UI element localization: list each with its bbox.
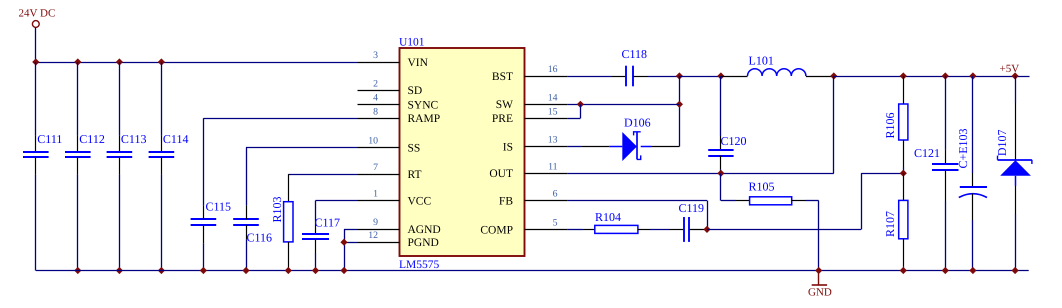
svg-text:SS: SS (408, 142, 421, 154)
wire +5V rail (834, 76, 1030, 78)
svg-text:C112: C112 (79, 132, 105, 146)
wire COMP to R104 (567, 229, 595, 231)
diode D106 schottky (622, 115, 650, 161)
capacitor C111 (23, 62, 62, 271)
svg-text:C+E103: C+E103 (956, 128, 970, 168)
svg-text:PRE: PRE (492, 113, 513, 125)
junction feedback divider node (900, 170, 907, 177)
svg-text:GND: GND (808, 286, 832, 298)
svg-text:BST: BST (492, 71, 513, 83)
capacitor C116 (233, 205, 272, 270)
pin 14 SW of U101 (496, 92, 568, 111)
capacitor C115 (191, 200, 231, 271)
svg-text:24V DC: 24V DC (19, 8, 56, 20)
junction bottom bus at CE103 (969, 267, 976, 274)
wire BST to C118 (567, 76, 626, 78)
junction FB COMP (703, 226, 710, 233)
pin 12 PGND of U101 (358, 230, 439, 249)
wire R104 to C119 (638, 229, 684, 231)
wire FB to C119 node (567, 201, 707, 230)
svg-text:6: 6 (553, 189, 558, 200)
svg-text:2: 2 (373, 78, 378, 89)
svg-text:8: 8 (373, 106, 378, 117)
svg-text:RT: RT (408, 169, 422, 181)
junction C120 top (717, 72, 724, 79)
junction input bus at C111 (32, 58, 39, 65)
wire SS to C116 (246, 148, 358, 206)
wire RT to R103 (288, 174, 357, 176)
wire VCC to C117 (316, 201, 358, 221)
pin 1 VCC of U101 (358, 189, 432, 208)
junction bottom bus at C114 (158, 267, 165, 274)
junction SW node top (676, 72, 683, 79)
resistor R105 (721, 173, 819, 270)
svg-text:3: 3 (373, 50, 378, 61)
wire C118 to SW node (633, 76, 680, 78)
pin 11 OUT of U101 (489, 161, 567, 180)
power port 24V DC terminal (19, 8, 56, 28)
wire SW node vertical (679, 76, 681, 147)
junction L101 output (830, 72, 837, 79)
svg-text:R103: R103 (270, 196, 284, 222)
junction bottom bus at C113 (116, 267, 123, 274)
wire RAMP to C115 (203, 118, 357, 205)
svg-text:5: 5 (553, 217, 558, 228)
junction SW node mid (676, 101, 683, 108)
capacitor C119 (679, 201, 705, 242)
resistor R103 (270, 174, 293, 270)
svg-text:14: 14 (548, 92, 558, 103)
pin 6 FB of U101 (499, 189, 567, 208)
junction bottom bus at GND (815, 267, 822, 274)
capacitor C118 (622, 47, 648, 86)
junction +5V at R106 (900, 72, 907, 79)
capacitor C120 (708, 76, 746, 173)
svg-text:R107: R107 (883, 211, 897, 237)
resistor R106 (883, 76, 908, 173)
svg-text:AGND: AGND (408, 224, 441, 236)
capacitor C114 (149, 62, 189, 271)
svg-text:C113: C113 (121, 132, 147, 146)
svg-text:COMP: COMP (480, 224, 513, 236)
svg-text:LM5575: LM5575 (399, 259, 440, 271)
junction +5V at C121 (942, 72, 949, 79)
wire SW node to L101 (679, 76, 721, 78)
junction +5V at D107 (1012, 72, 1019, 79)
svg-text:IS: IS (503, 141, 513, 153)
capacitor C117 (302, 215, 340, 270)
diode D107 schottky (995, 76, 1032, 271)
svg-text:C117: C117 (315, 215, 341, 229)
svg-text:L101: L101 (749, 53, 774, 67)
wire AGND joins PGND (344, 229, 358, 270)
junction OUT at C120 (717, 170, 724, 177)
junction bottom bus at C116 (242, 267, 249, 274)
svg-text:16: 16 (548, 64, 558, 75)
svg-text:C121: C121 (914, 146, 940, 160)
svg-text:VCC: VCC (408, 195, 432, 207)
pin 10 SS of U101 (358, 136, 421, 155)
junction bottom bus at C115 (200, 267, 207, 274)
wire OUT line (567, 76, 834, 174)
wire D106 cathode to SW node (641, 146, 680, 148)
svg-text:7: 7 (373, 162, 378, 173)
svg-text:C116: C116 (247, 231, 273, 245)
junction bottom bus at R103 (285, 267, 292, 274)
svg-text:D106: D106 (624, 115, 651, 129)
wire IS to D106 (567, 146, 622, 148)
svg-text:PGND: PGND (408, 237, 439, 249)
junction bottom bus at C112 (74, 267, 81, 274)
capacitor C121 (914, 76, 959, 271)
svg-text:15: 15 (548, 106, 558, 117)
wire SW line (567, 104, 679, 106)
pin 15 PRE of U101 (492, 106, 567, 125)
svg-text:C119: C119 (679, 201, 705, 215)
svg-text:SYNC: SYNC (408, 99, 439, 111)
wire bottom ground bus (36, 270, 1029, 272)
junction bottom bus at C121 (942, 267, 949, 274)
svg-text:U101: U101 (399, 37, 425, 49)
svg-text:VIN: VIN (408, 57, 429, 69)
pin 2 SD of U101 (358, 78, 423, 97)
junction AGND PGND (340, 239, 347, 246)
capacitor C113 (107, 62, 147, 271)
svg-text:13: 13 (548, 135, 558, 146)
svg-text:C115: C115 (206, 200, 232, 214)
op-amp U1 regulator U101 LM5575 body (399, 37, 525, 271)
junction SW PRE (577, 101, 584, 108)
pin 5 COMP of U101 (480, 217, 567, 236)
svg-text:9: 9 (373, 217, 378, 228)
svg-text:10: 10 (368, 136, 378, 147)
svg-text:12: 12 (368, 230, 378, 241)
svg-text:OUT: OUT (489, 168, 513, 180)
junction input bus at C114 (158, 58, 165, 65)
pin 7 RT of U101 (358, 162, 422, 181)
wire COMP junction to divider node (707, 173, 903, 229)
pin 13 IS of U101 (503, 135, 568, 154)
resistor R104 (595, 210, 638, 233)
svg-text:RAMP: RAMP (408, 113, 441, 125)
pin 16 BST of U101 (492, 64, 567, 83)
svg-text:D107: D107 (995, 129, 1009, 156)
svg-text:FB: FB (499, 195, 513, 207)
svg-text:R105: R105 (749, 179, 775, 193)
svg-text:R106: R106 (883, 112, 897, 138)
wire 24V drop (35, 27, 37, 62)
svg-text:C120: C120 (721, 134, 747, 148)
pin 8 RAMP of U101 (358, 106, 441, 125)
junction input bus at C112 (74, 58, 81, 65)
svg-text:SD: SD (408, 85, 423, 97)
svg-text:+5V: +5V (1000, 63, 1020, 75)
pin 3 VIN of U101 (358, 50, 429, 69)
wire PRE to SW (567, 104, 580, 118)
inductor L101 (721, 53, 834, 76)
junction input bus at C113 (116, 58, 123, 65)
junction +5V at CE103 (969, 72, 976, 79)
svg-text:SW: SW (496, 99, 513, 111)
junction bottom bus at R107 (900, 267, 907, 274)
junction bottom bus at AGND PGND (340, 267, 347, 274)
junction bottom bus at D107 (1012, 267, 1019, 274)
wire C119 to junction (689, 229, 707, 231)
pin 9 AGND of U101 (358, 217, 441, 236)
svg-text:C118: C118 (622, 47, 648, 61)
capacitor C112 (65, 62, 105, 271)
ground GND (808, 271, 832, 299)
svg-text:4: 4 (373, 92, 378, 103)
svg-text:C111: C111 (37, 132, 62, 146)
wire top input bus (36, 62, 358, 64)
resistor R107 (883, 173, 908, 270)
power port +5V (1000, 63, 1020, 75)
svg-text:1: 1 (373, 189, 378, 200)
svg-text:11: 11 (548, 161, 558, 172)
pin 4 SYNC of U101 (358, 92, 439, 111)
svg-text:C114: C114 (163, 132, 189, 146)
svg-text:R104: R104 (595, 210, 621, 224)
junction bottom bus at C117 (312, 267, 319, 274)
capacitor C+E103 electrolytic (956, 76, 987, 271)
